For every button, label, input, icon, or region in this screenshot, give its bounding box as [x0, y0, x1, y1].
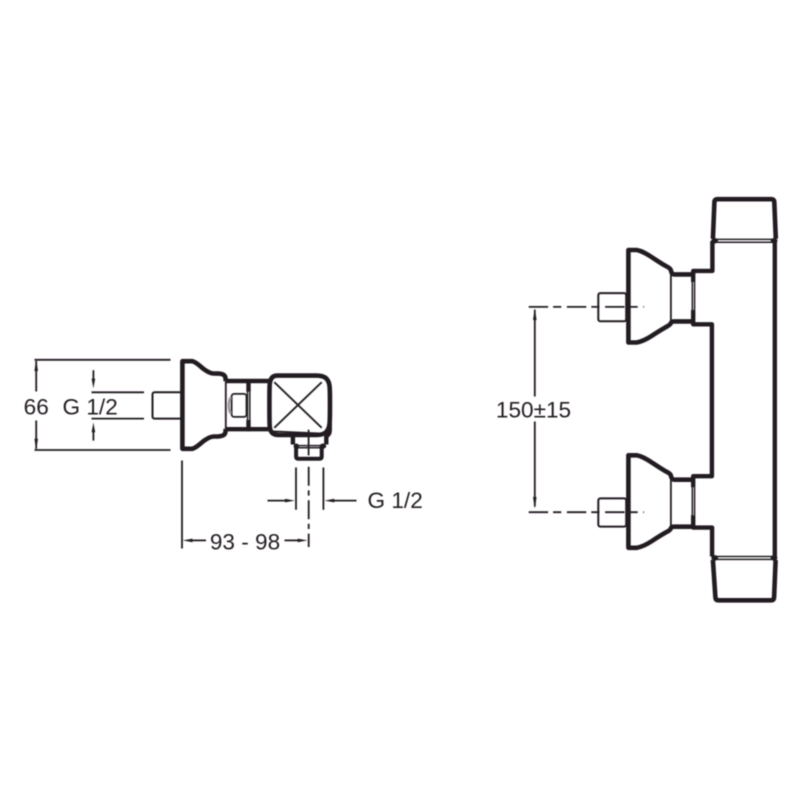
svg-text:G 1/2: G 1/2 [63, 394, 118, 419]
thread relief lines [298, 445, 321, 447]
X cross diagonal 1 [274, 382, 321, 428]
body left edge middle between inlets [693, 310, 712, 488]
cartridge gray arc [229, 397, 231, 413]
body left edge lower + bottom step [693, 515, 712, 556]
G1/2 arrowhead top (down) [92, 379, 96, 389]
svg-text:93 - 98: 93 - 98 [210, 529, 280, 554]
body bottom inner line [273, 431, 325, 433]
bottom seam dot left [711, 555, 718, 561]
outlet axis line [308, 430, 310, 456]
dashed centerline [529, 306, 644, 308]
svg-text:150±15: 150±15 [496, 397, 571, 422]
G1/2 bottom dim line right [332, 500, 357, 502]
inlet bell [628, 455, 692, 548]
valve body (rounded square) [269, 376, 330, 435]
G1/2 bottom arrow right-pointing [285, 499, 295, 503]
top seam dot left [711, 238, 718, 244]
outlet neck left wall [291, 435, 295, 445]
66 dimension line [35, 361, 37, 392]
93-98 dim line left + arrow [190, 539, 206, 541]
union thin double lines [691, 487, 693, 515]
inlet bell [628, 250, 692, 343]
93-98 dim line right + arrow [285, 539, 300, 541]
outlet nut G1/2 (down) [296, 446, 322, 458]
body bottom cap [713, 560, 776, 600]
X cross diagonal 2 [274, 382, 321, 428]
G1/2 arrow stem top [92, 370, 94, 380]
supply pipe (front) [598, 498, 626, 526]
arrow down [533, 497, 537, 509]
valve neck bottom line [226, 427, 270, 431]
outlet dashed centerline [308, 467, 310, 547]
outlet extension line left [295, 468, 297, 510]
dim line upper part [534, 310, 536, 397]
G1/2 arrow stem bottom [92, 431, 94, 441]
bell face line [225, 382, 227, 429]
G1/2 bottom dim line left [268, 500, 288, 502]
body left edge upper + top inlet step [693, 241, 712, 282]
union nut stub bottom [246, 420, 250, 431]
union nut stub top [246, 379, 250, 392]
outlet junction dot left [294, 444, 299, 449]
dim line lower part [534, 422, 536, 507]
bell face line [670, 275, 672, 321]
G1/2 bottom arrow left-pointing [325, 499, 335, 503]
66 arrow up [34, 360, 38, 371]
G1/2 pipe extension line bottom [92, 418, 145, 420]
G1/2 pipe extension line top [92, 391, 145, 393]
svg-text:G 1/2: G 1/2 [368, 488, 423, 513]
bottom seam dot right [771, 555, 778, 561]
valve neck top line [226, 379, 270, 383]
union thin double lines [691, 282, 693, 310]
small knob on left edge [710, 450, 714, 456]
supply pipe (front) [598, 293, 626, 321]
bell face line [670, 480, 672, 526]
union thin double lines [247, 392, 249, 420]
outlet neck right wall [326, 423, 329, 445]
escutcheon bell (side view) [182, 361, 225, 449]
body right edge [773, 241, 777, 557]
66 extension line top [35, 359, 171, 361]
66 arrow down [34, 439, 38, 450]
top seam dot right [771, 238, 778, 244]
outlet junction dot right [320, 444, 327, 449]
outlet extension line right [322, 468, 324, 510]
66 extension line bottom [35, 449, 171, 451]
body top cap [713, 199, 776, 239]
wall pipe G1/2 (side view) [153, 392, 183, 418]
top seam lines [713, 238, 775, 240]
arrow up [533, 309, 537, 321]
G1/2 arrowhead bottom (up) [92, 423, 96, 433]
bottom seam lines [713, 556, 775, 558]
dashed centerline [529, 511, 644, 513]
svg-text:66: 66 [24, 394, 49, 419]
93-98 extension line (from bell) [181, 461, 183, 549]
cartridge cap (small square) [232, 394, 247, 417]
